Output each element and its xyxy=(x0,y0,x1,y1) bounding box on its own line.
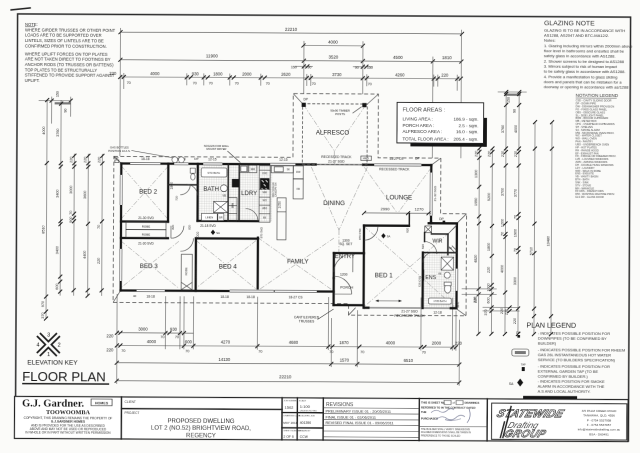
svg-text:70: 70 xyxy=(193,81,197,85)
svg-text:21-18 SVD: 21-18 SVD xyxy=(200,224,216,228)
svg-text:600: 600 xyxy=(55,284,59,290)
svg-text:SERVICE (TO BUILDERS SPECIFICA: SERVICE (TO BUILDERS SPECIFICATION) xyxy=(538,357,616,362)
svg-text:150: 150 xyxy=(291,65,297,69)
svg-text:70: 70 xyxy=(422,350,426,354)
svg-text:930: 930 xyxy=(192,71,200,76)
svg-text:150: 150 xyxy=(56,91,60,97)
svg-text:1000: 1000 xyxy=(486,283,490,291)
svg-text:70: 70 xyxy=(360,350,364,354)
svg-text:UNLESS NOTED: UNLESS NOTED xyxy=(300,410,317,412)
svg-text:90: 90 xyxy=(355,66,359,70)
svg-text:40: 40 xyxy=(133,294,137,298)
svg-text:OHC: OHC xyxy=(262,172,268,175)
svg-text:21-32 SGD: 21-32 SGD xyxy=(433,185,437,201)
svg-text:UBO: UBO xyxy=(262,207,267,210)
svg-text:WM: WM xyxy=(251,168,255,171)
svg-text:220: 220 xyxy=(487,267,491,273)
svg-text:2000: 2000 xyxy=(242,71,252,76)
svg-text:1800: 1800 xyxy=(487,243,491,251)
svg-text:BUILDERS JOB: BUILDERS JOB xyxy=(299,415,315,417)
svg-text:220: 220 xyxy=(487,151,491,157)
svg-text:870 SVD: 870 SVD xyxy=(260,227,264,238)
svg-text:TAP: TAP xyxy=(521,363,526,367)
svg-text:BUILDER): BUILDER) xyxy=(538,340,557,345)
svg-text:STATEWIDE: STATEWIDE xyxy=(495,408,566,420)
svg-text:FLOOR AREAS :: FLOOR AREAS : xyxy=(403,107,446,113)
svg-text:IN WHOLE OR IN PART WITHOUT WR: IN WHOLE OR IN PART WITHOUT WRITTEN PERM… xyxy=(25,430,111,434)
svg-text:11900: 11900 xyxy=(206,53,218,58)
svg-text:3730: 3730 xyxy=(332,72,342,77)
svg-text:5710: 5710 xyxy=(529,247,533,255)
svg-text:220: 220 xyxy=(97,157,101,163)
svg-text:1570: 1570 xyxy=(340,358,350,363)
svg-text:1950: 1950 xyxy=(474,198,478,206)
svg-text:70: 70 xyxy=(97,225,101,229)
svg-text:220: 220 xyxy=(441,72,449,77)
svg-text:TOOWOOMBA: TOOWOOMBA xyxy=(46,409,90,416)
svg-text:DP: DP xyxy=(303,98,308,102)
svg-text:401390: 401390 xyxy=(300,421,311,425)
svg-text:A.S AND LOCAL AUTHORITY.: A.S AND LOCAL AUTHORITY. xyxy=(538,388,591,393)
svg-text:1000: 1000 xyxy=(196,231,200,239)
svg-text:TOTAL FLOOR AREA :: TOTAL FLOOR AREA : xyxy=(402,137,448,142)
svg-text:70: 70 xyxy=(209,81,213,85)
svg-text:BED 4: BED 4 xyxy=(219,263,237,270)
svg-text:18-18: 18-18 xyxy=(220,295,229,299)
svg-text:ROBE: ROBE xyxy=(142,225,151,229)
svg-text:DRAWINGS: DRAWINGS xyxy=(465,401,480,405)
svg-text:600: 600 xyxy=(185,339,193,344)
svg-text:PRELIMINARY ISSUE 01 - 20/05/2: PRELIMINARY ISSUE 01 - 20/05/2011 xyxy=(326,410,391,414)
svg-text:220: 220 xyxy=(473,297,477,303)
svg-text:220: 220 xyxy=(513,318,517,324)
svg-text:970: 970 xyxy=(41,301,45,307)
svg-text:FAMILY: FAMILY xyxy=(287,258,309,265)
svg-text:LINEN: LINEN xyxy=(205,215,213,219)
svg-text:220: 220 xyxy=(514,151,518,157)
svg-text:ROBE: ROBE xyxy=(184,267,188,275)
svg-text:3520: 3520 xyxy=(328,55,338,60)
svg-text:2620: 2620 xyxy=(281,72,291,77)
svg-text:NOTE:: NOTE: xyxy=(25,22,38,27)
svg-text:TRUSSES: TRUSSES xyxy=(299,319,315,323)
svg-text:FR: FR xyxy=(263,217,266,220)
svg-text:FLOOR PLAN: FLOOR PLAN xyxy=(22,369,106,384)
svg-text:BED 1: BED 1 xyxy=(375,272,393,279)
svg-text:220: 220 xyxy=(106,333,114,338)
svg-text:ENTRY: ENTRY xyxy=(335,254,355,260)
svg-text:4000: 4000 xyxy=(147,339,157,344)
svg-text:70: 70 xyxy=(121,349,125,353)
svg-text:6510: 6510 xyxy=(404,358,414,363)
svg-text:1870: 1870 xyxy=(339,340,349,345)
svg-text:TANAWHA, QLD, 4556: TANAWHA, QLD, 4556 xyxy=(583,413,615,417)
svg-text:F - 0754 5537957: F - 0754 5537957 xyxy=(587,423,612,427)
svg-text:4680: 4680 xyxy=(289,340,299,345)
svg-text:2000: 2000 xyxy=(432,341,442,346)
svg-text:1502: 1502 xyxy=(285,405,295,410)
svg-text:info@statewidedrafting.com.au: info@statewidedrafting.com.au xyxy=(578,428,621,432)
svg-text:VB: VB xyxy=(438,273,442,276)
svg-text:3760: 3760 xyxy=(501,125,505,133)
svg-text:PORCH AREA :: PORCH AREA : xyxy=(403,123,435,128)
svg-text:4000: 4000 xyxy=(500,265,504,273)
svg-text:of: of xyxy=(453,401,456,405)
svg-text:930: 930 xyxy=(170,327,178,332)
svg-text:70: 70 xyxy=(500,232,504,236)
svg-text:16.0 - sqm.: 16.0 - sqm. xyxy=(456,129,479,134)
svg-text:GROUP: GROUP xyxy=(502,429,548,441)
svg-text:DW: DW xyxy=(296,171,301,174)
svg-text:205.4 - sqm.: 205.4 - sqm. xyxy=(453,137,478,142)
svg-text:ALFRESCO: ALFRESCO xyxy=(316,129,350,136)
svg-text:21-27 SGD: 21-27 SGD xyxy=(328,159,345,163)
svg-text:720: 720 xyxy=(175,195,179,200)
svg-text:14130: 14130 xyxy=(218,357,230,362)
svg-text:21-30 SVD: 21-30 SVD xyxy=(138,216,154,220)
svg-text:CCW: CCW xyxy=(300,435,309,439)
svg-text:JOB NUMBER: JOB NUMBER xyxy=(284,400,299,402)
svg-text:220: 220 xyxy=(106,347,114,352)
svg-text:BSA - D60491: BSA - D60491 xyxy=(589,432,609,436)
svg-text:70: 70 xyxy=(160,335,164,339)
svg-text:SA: SA xyxy=(387,234,391,238)
svg-text:BATH: BATH xyxy=(203,187,219,193)
svg-text:1300: 1300 xyxy=(474,170,478,178)
svg-text:HOMES: HOMES xyxy=(95,401,109,405)
svg-text:LDRY: LDRY xyxy=(241,191,257,197)
svg-text:ELEVATION KEY: ELEVATION KEY xyxy=(27,360,78,367)
svg-text:POSTS: POSTS xyxy=(335,112,345,116)
svg-text:REVISED FINAL ISSUE 01 - 09/06: REVISED FINAL ISSUE 01 - 09/06/2011 xyxy=(325,421,393,425)
svg-text:4: 4 xyxy=(36,343,39,349)
svg-text:3300: 3300 xyxy=(513,277,517,285)
svg-text:725 CSD: 725 CSD xyxy=(418,276,422,287)
svg-text:1050: 1050 xyxy=(278,201,282,209)
svg-text:1900: 1900 xyxy=(513,229,517,237)
svg-text:3000: 3000 xyxy=(69,186,73,194)
svg-text:12-15: 12-15 xyxy=(279,158,288,162)
svg-text:REGENCY: REGENCY xyxy=(186,433,216,439)
svg-text:370: 370 xyxy=(41,312,45,318)
svg-text:8510: 8510 xyxy=(41,225,45,233)
svg-text:870 CSD: 870 CSD xyxy=(358,229,362,240)
svg-text:REFERRED TO IN THE CONTRACT DA: REFERRED TO IN THE CONTRACT DATED xyxy=(421,405,475,409)
svg-text:820: 820 xyxy=(171,224,175,229)
svg-text:LIVING AREA :: LIVING AREA : xyxy=(403,116,433,121)
svg-text:3400: 3400 xyxy=(55,190,59,198)
svg-text:3/5 PALM CREEK ROAD: 3/5 PALM CREEK ROAD xyxy=(582,409,617,413)
svg-text:4260: 4260 xyxy=(395,72,405,77)
svg-text:PREFERENCE TO THOSE SCALED: PREFERENCE TO THOSE SCALED xyxy=(421,434,461,437)
svg-text:2 OF 6: 2 OF 6 xyxy=(283,435,293,439)
svg-text:70: 70 xyxy=(513,248,517,252)
svg-text:13480: 13480 xyxy=(546,236,550,246)
svg-text:DP: DP xyxy=(194,157,198,161)
svg-text:WIR: WIR xyxy=(432,238,442,244)
svg-text:THE: THE xyxy=(421,410,427,414)
svg-text:ENS: ENS xyxy=(425,275,436,281)
svg-text:186.9 - sqm.: 186.9 - sqm. xyxy=(454,117,479,122)
svg-text:820: 820 xyxy=(421,244,425,249)
svg-text:BRM: BRM xyxy=(233,203,235,208)
svg-text:70: 70 xyxy=(513,215,517,219)
svg-text:STD BATH: STD BATH xyxy=(207,171,220,175)
svg-text:SA: SA xyxy=(216,231,220,235)
svg-text:SCALE: SCALE xyxy=(299,399,307,402)
svg-text:MAY 2011: MAY 2011 xyxy=(283,421,297,425)
svg-text:P - 0754 5537958: P - 0754 5537958 xyxy=(587,418,612,422)
svg-text:3770: 3770 xyxy=(513,189,517,197)
svg-text:70: 70 xyxy=(312,82,316,86)
svg-text:THIS IS SHEET No.: THIS IS SHEET No. xyxy=(421,401,445,405)
svg-text:70: 70 xyxy=(368,82,372,86)
svg-text:BED 3: BED 3 xyxy=(140,263,158,270)
svg-text:820: 820 xyxy=(405,227,409,232)
svg-text:GLAZING NOTE: GLAZING NOTE xyxy=(544,20,595,27)
svg-text:1270: 1270 xyxy=(415,206,425,211)
svg-text:BR: BR xyxy=(219,217,223,220)
svg-text:LOT 2 (NO.52) BRIGHTVIEW ROAD,: LOT 2 (NO.52) BRIGHTVIEW ROAD, xyxy=(151,426,251,433)
svg-text:70: 70 xyxy=(127,81,131,85)
svg-text:150: 150 xyxy=(507,97,511,103)
svg-text:220: 220 xyxy=(69,157,73,163)
svg-text:370: 370 xyxy=(484,309,488,315)
svg-text:1800: 1800 xyxy=(170,182,174,190)
svg-text:5200: 5200 xyxy=(487,193,491,201)
svg-text:FR: FR xyxy=(297,188,301,191)
svg-text:90: 90 xyxy=(64,109,68,113)
svg-text:70: 70 xyxy=(185,349,189,353)
svg-text:SK: SK xyxy=(287,168,291,171)
svg-text:220: 220 xyxy=(109,71,117,76)
svg-text:22210: 22210 xyxy=(285,27,298,32)
svg-text:3400: 3400 xyxy=(55,246,59,254)
svg-text:220: 220 xyxy=(474,151,478,157)
svg-text:1200: 1200 xyxy=(340,273,348,277)
svg-text:18-27 CS: 18-27 CS xyxy=(289,295,304,299)
svg-text:FINAL ISSUE 01 - 02/06/2011: FINAL ISSUE 01 - 02/06/2011 xyxy=(325,415,375,419)
svg-text:70: 70 xyxy=(235,81,239,85)
svg-text:70: 70 xyxy=(266,82,270,86)
svg-text:PURCHASER: PURCHASER xyxy=(421,417,438,421)
svg-text:1705 BATH: 1705 BATH xyxy=(433,299,446,303)
svg-text:18-18: 18-18 xyxy=(141,157,150,161)
svg-text:3600: 3600 xyxy=(83,191,87,199)
svg-text:220: 220 xyxy=(83,157,87,163)
svg-text:CANOPY RH: CANOPY RH xyxy=(275,182,278,196)
svg-text:1800: 1800 xyxy=(213,71,223,76)
svg-text:90: 90 xyxy=(513,109,517,113)
svg-text:LOUNGE: LOUNGE xyxy=(386,194,412,201)
svg-text:doorway or opening in accordan: doorway or opening in accordance with as… xyxy=(544,84,630,89)
svg-text:2.5 - sqm.: 2.5 - sqm. xyxy=(458,123,478,128)
svg-text:3700: 3700 xyxy=(500,188,504,196)
svg-text:900: 900 xyxy=(69,217,73,223)
svg-text:4000: 4000 xyxy=(328,39,338,44)
svg-text:SQ. SET: SQ. SET xyxy=(339,242,352,246)
svg-text:3000: 3000 xyxy=(138,326,148,331)
svg-text:12-18: 12-18 xyxy=(433,311,442,315)
svg-text:1:100: 1:100 xyxy=(300,404,311,409)
svg-text:PLAN LEGEND: PLAN LEGEND xyxy=(526,322,576,330)
svg-text:ROBE: ROBE xyxy=(142,233,151,237)
svg-text:1200: 1200 xyxy=(500,219,504,227)
svg-text:NOTATION LEGEND: NOTATION LEGEND xyxy=(576,93,619,98)
svg-text:2: 2 xyxy=(58,343,61,349)
svg-text:ALFRESCO AREA :: ALFRESCO AREA : xyxy=(402,129,442,134)
svg-text:DP: DP xyxy=(439,217,444,221)
svg-text:22210: 22210 xyxy=(279,374,292,379)
svg-text:1: 1 xyxy=(47,352,50,358)
svg-text:RECESSED TRACK: RECESSED TRACK xyxy=(379,168,410,172)
svg-text:DRAWN BY: DRAWN BY xyxy=(299,429,311,432)
svg-text:DP: DP xyxy=(516,331,521,335)
svg-text:4400: 4400 xyxy=(83,251,87,259)
svg-text:PROPOSED DWELLING: PROPOSED DWELLING xyxy=(167,419,234,425)
svg-text:CLIENT: CLIENT xyxy=(125,400,136,404)
svg-text:15-27 CS: 15-27 CS xyxy=(389,157,404,161)
svg-text:MOUNT DRYER: MOUNT DRYER xyxy=(206,147,226,151)
svg-text:4000: 4000 xyxy=(150,71,160,76)
svg-text:TAP: TAP xyxy=(114,157,119,160)
svg-text:4000: 4000 xyxy=(514,125,518,133)
svg-text:1810: 1810 xyxy=(442,55,452,60)
svg-text:UPLIFT.: UPLIFT. xyxy=(25,78,40,83)
svg-text:3: 3 xyxy=(47,333,50,339)
svg-text:220: 220 xyxy=(505,309,509,315)
svg-text:GLS DR - GLASS DOOR: GLS DR - GLASS DOOR xyxy=(575,195,604,199)
svg-text:21-30 SVD: 21-30 SVD xyxy=(138,242,154,246)
svg-text:DINING: DINING xyxy=(323,200,345,207)
svg-text:21-21 SVD: 21-21 SVD xyxy=(194,264,198,278)
svg-text:3760: 3760 xyxy=(56,129,60,137)
svg-text:70: 70 xyxy=(69,211,73,215)
svg-text:DP: DP xyxy=(415,156,420,160)
svg-text:REVISIONS: REVISIONS xyxy=(326,402,354,408)
svg-text:CONFIRMED PRIOR TO CONSTRUCTIO: CONFIRMED PRIOR TO CONSTRUCTION. xyxy=(25,43,107,48)
svg-text:VB: VB xyxy=(222,193,226,197)
svg-text:2990: 2990 xyxy=(381,206,391,211)
svg-text:POSITION 10 A.S.: POSITION 10 A.S. xyxy=(108,149,131,153)
svg-text:18-18: 18-18 xyxy=(146,295,155,299)
svg-text:WO: WO xyxy=(263,199,267,202)
svg-text:4000: 4000 xyxy=(42,126,46,134)
svg-text:4500: 4500 xyxy=(393,55,403,60)
svg-text:RECESSED TRACK: RECESSED TRACK xyxy=(394,314,425,318)
svg-text:220: 220 xyxy=(501,151,505,157)
svg-text:70: 70 xyxy=(175,335,179,339)
svg-text:18-18: 18-18 xyxy=(246,295,255,299)
svg-text:HWS: HWS xyxy=(363,156,369,160)
svg-text:BED 2: BED 2 xyxy=(139,189,157,196)
svg-text:220: 220 xyxy=(97,258,101,264)
svg-text:4270: 4270 xyxy=(221,340,231,345)
svg-text:150: 150 xyxy=(367,66,373,70)
svg-text:4000: 4000 xyxy=(386,341,396,346)
svg-text:PORCH: PORCH xyxy=(340,285,353,289)
svg-text:600: 600 xyxy=(486,297,490,303)
svg-text:820: 820 xyxy=(187,225,191,230)
svg-text:12-15: 12-15 xyxy=(208,158,217,162)
svg-text:4820: 4820 xyxy=(474,255,478,263)
svg-text:70: 70 xyxy=(258,349,262,353)
svg-text:PROJECT: PROJECT xyxy=(125,411,140,415)
